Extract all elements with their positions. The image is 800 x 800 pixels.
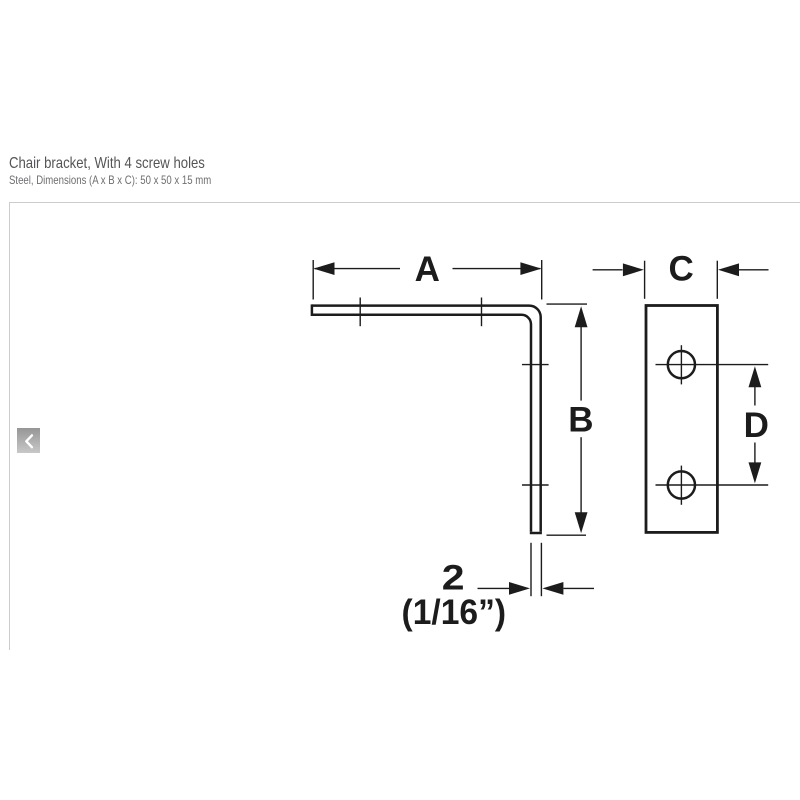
dimension D: dimension line upper segment xyxy=(754,387,756,406)
top screw hole crosshair vertical xyxy=(680,345,682,384)
svg-text:C: C xyxy=(669,250,694,289)
dimension D: top arrowhead xyxy=(749,366,762,387)
bracket bottom end cap xyxy=(530,532,542,535)
dimension D: bottom arrowhead xyxy=(749,462,762,483)
dimension A: dimension line right segment xyxy=(453,268,541,270)
dimension A: right extension line xyxy=(541,260,543,300)
screw hole tick 1 on horizontal leg xyxy=(359,298,361,327)
dimension C: left leader line xyxy=(593,269,623,271)
thickness dimension: left leader line xyxy=(478,587,511,589)
bottom screw hole crosshair vertical xyxy=(680,466,682,505)
screw hole tick 2 on vertical leg xyxy=(522,484,549,486)
svg-text:2: 2 xyxy=(442,559,465,598)
dimension A: left extension line xyxy=(312,260,314,300)
dimension B: bottom arrowhead xyxy=(575,512,588,533)
dimension B: top arrowhead xyxy=(575,306,588,327)
image frame border xyxy=(9,202,800,650)
product subtitle xyxy=(9,174,211,186)
bracket left end cap xyxy=(311,304,314,316)
screw hole tick 1 on vertical leg xyxy=(522,364,549,366)
dimension B: dimension line upper segment xyxy=(580,327,582,401)
label (1/16&quot;) xyxy=(402,593,507,632)
label 2 xyxy=(442,559,465,598)
svg-text:(1/16”): (1/16”) xyxy=(402,593,507,632)
bottom screw hole crosshair horizontal and extension to D xyxy=(656,484,769,486)
bracket front view plate outline xyxy=(646,306,717,533)
product title xyxy=(9,156,205,172)
bracket side view: outer contour (top edge + rounded corner + outer vertical edge) xyxy=(312,306,541,532)
thickness dimension: right leader line xyxy=(563,587,594,589)
svg-text:A: A xyxy=(415,250,440,289)
bracket side view: inner contour (bottom edge of top leg + inner corner + inner vertical edge) xyxy=(312,315,531,532)
dimension C: left extension line xyxy=(644,261,646,299)
dimension B: bottom extension line xyxy=(547,534,587,536)
dimension C: right arrowhead xyxy=(718,263,739,276)
dimension C: left arrowhead xyxy=(623,263,644,276)
thickness dimension: left extension line xyxy=(530,543,532,596)
bottom screw hole xyxy=(668,471,695,498)
prev chevron icon xyxy=(26,435,32,447)
dimension D: dimension line lower segment xyxy=(754,443,756,463)
top screw hole xyxy=(668,351,695,378)
dimension C: right extension line xyxy=(716,261,718,299)
dimension C: right leader line xyxy=(739,269,769,271)
svg-text:B: B xyxy=(568,401,593,440)
top screw hole crosshair horizontal and extension to D xyxy=(656,364,769,366)
dimension A: dimension line left segment xyxy=(315,268,401,270)
dimension A: left arrowhead xyxy=(314,262,335,275)
thickness dimension: left arrowhead xyxy=(509,582,530,595)
dimension A: right arrowhead xyxy=(520,262,541,275)
carousel prev button xyxy=(17,428,41,453)
thickness dimension: right extension line xyxy=(540,543,542,596)
thickness dimension: right arrowhead xyxy=(542,582,563,595)
dimension B: top extension line xyxy=(547,303,588,305)
screw hole tick 2 on horizontal leg xyxy=(481,298,483,327)
svg-text:D: D xyxy=(744,406,769,445)
dimension B: dimension line lower segment xyxy=(580,437,582,512)
